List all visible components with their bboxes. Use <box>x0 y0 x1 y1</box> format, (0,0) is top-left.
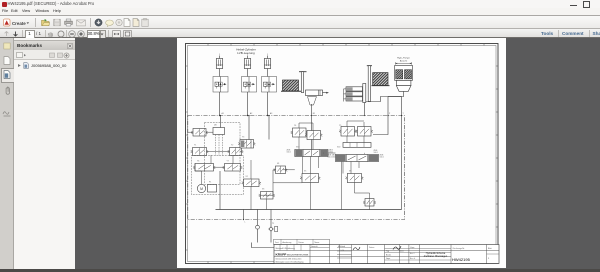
svg-text:Y7: Y7 <box>227 161 229 163</box>
svg-text:b: b <box>364 153 365 155</box>
svg-text:Bearb.: Bearb. <box>386 255 392 257</box>
svg-text:V10: V10 <box>296 147 299 149</box>
svg-text:100.1: 100.1 <box>380 157 384 159</box>
svg-text:V4: V4 <box>277 163 279 165</box>
svg-text:Y2: Y2 <box>231 145 233 147</box>
svg-text:100.1: 100.1 <box>329 152 333 154</box>
svg-text:Y6: Y6 <box>197 161 199 163</box>
svg-text:Zust.: Zust. <box>275 241 279 244</box>
svg-text:P: P <box>389 113 391 115</box>
svg-text:Datum: Datum <box>369 246 375 249</box>
svg-text:Datum: Datum <box>299 241 305 244</box>
svg-text:Ers. d.: Ers. d. <box>410 258 416 260</box>
svg-text:V2: V2 <box>246 176 248 178</box>
svg-text:100.1: 100.1 <box>374 152 378 154</box>
svg-text:V3: V3 <box>262 189 264 191</box>
svg-text:DB: DB <box>214 125 217 127</box>
svg-text:Y5: Y5 <box>339 125 341 127</box>
svg-text:L: L <box>245 222 246 224</box>
svg-text:T1: T1 <box>272 223 274 225</box>
svg-text:drehbarer Oberwagen: drehbarer Oberwagen <box>424 255 448 258</box>
svg-text:Schutzvermerk DIN 34 beachten: Schutzvermerk DIN 34 beachten <box>276 257 302 260</box>
svg-text:a: a <box>323 153 324 155</box>
svg-text:P1: P1 <box>209 182 211 184</box>
svg-text:1: 1 <box>219 54 221 56</box>
svg-text:KRUPP: KRUPP <box>276 252 287 256</box>
svg-text:Create: Create <box>12 21 26 26</box>
svg-text:Gewicht: Gewicht <box>311 245 318 248</box>
svg-text:Weitergabe sowie Vervielfaelti: Weitergabe sowie Vervielfaeltigung <box>276 260 304 263</box>
svg-text:A2: A2 <box>250 112 252 115</box>
svg-text:1: 1 <box>267 54 269 56</box>
svg-text:Hydr.-Pumpe: Hydr.-Pumpe <box>397 57 411 60</box>
svg-text:INDUSTRIETECHNIK: INDUSTRIETECHNIK <box>287 254 309 256</box>
svg-text:Ers. f.: Ers. f. <box>410 253 415 255</box>
svg-text:Werkstoff DIN Halbzeug: Werkstoff DIN Halbzeug <box>276 247 295 250</box>
svg-text:V6: V6 <box>349 171 351 173</box>
svg-text:HW42195: HW42195 <box>452 257 471 262</box>
svg-text:Zeichnungs-Nr.: Zeichnungs-Nr. <box>453 248 466 250</box>
svg-text:V20: V20 <box>337 147 340 149</box>
svg-text:Maßstab: Maßstab <box>338 245 345 248</box>
svg-text:100.1: 100.1 <box>287 152 291 154</box>
svg-text:A1: A1 <box>222 112 224 115</box>
svg-text:Y4: Y4 <box>294 125 296 127</box>
svg-text:M: M <box>200 187 203 191</box>
svg-text:Aenderung: Aenderung <box>283 241 292 244</box>
svg-text:100.1: 100.1 <box>332 157 336 159</box>
svg-text:A3: A3 <box>270 112 272 115</box>
svg-text:Ansicht: Ansicht <box>400 59 408 62</box>
svg-text:Urspr.: Urspr. <box>410 247 415 249</box>
svg-text:Name: Name <box>315 242 320 244</box>
svg-text:B1: B1 <box>313 113 315 115</box>
svg-text:Y1: Y1 <box>194 145 196 147</box>
svg-text:Name: Name <box>399 251 404 253</box>
svg-text:Blatt: Blatt <box>488 247 492 250</box>
svg-text:Gepr.: Gepr. <box>386 258 391 260</box>
svg-text:T: T <box>403 113 405 115</box>
svg-text:Y3: Y3 <box>242 137 244 139</box>
svg-text:V5: V5 <box>304 171 306 173</box>
svg-text:Tag: Tag <box>386 251 389 253</box>
svg-text:1:10: 1:10 <box>341 250 345 252</box>
